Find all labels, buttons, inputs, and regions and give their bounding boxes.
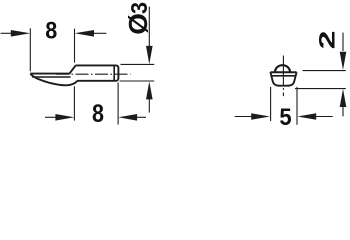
pin centerline [56, 73, 131, 75]
dim 2: bottom tail [342, 106, 344, 117]
right view vertical centerline [282, 56, 284, 97]
dim 2: top arrowhead (down) [340, 52, 347, 70]
dim 2: bottom arrowhead (up) [340, 89, 347, 107]
dim 5: right tail [315, 116, 333, 118]
dim 8 top: right extension line [74, 29, 76, 63]
dim 5: right arrowhead [297, 113, 316, 120]
dim dia3: top extension line [121, 63, 155, 65]
dim 8 bottom: right arrowhead [118, 114, 137, 121]
dim 2: top tail [342, 33, 344, 51]
dim 8 top: left arrowhead [11, 30, 30, 37]
dim 2: bottom extension line [295, 88, 346, 90]
dim 8 bottom: left extension line [73, 86, 75, 120]
pin bottom edge [77, 80, 114, 82]
svg-text:Ø: Ø [124, 13, 153, 35]
svg-text:3: 3 [126, 2, 152, 14]
dim dia3: bottom arrowhead (up) [146, 81, 153, 99]
svg-text:8: 8 [92, 100, 104, 127]
svg-text:2: 2 [315, 31, 340, 50]
dim 5: right extension line [296, 87, 298, 125]
dim dia3: top tail [148, 7, 150, 47]
pin end cap [114, 65, 118, 80]
right view bowl outline [270, 72, 296, 86]
dim dia3: bottom extension line [120, 80, 155, 82]
blade inner edge line [32, 76, 70, 78]
svg-text:8: 8 [45, 16, 57, 43]
right view dome [275, 65, 290, 72]
dim 8 bottom: left tail [45, 116, 56, 118]
dim dia3: top arrowhead (down) [146, 46, 153, 64]
pin top edge [76, 64, 115, 66]
right view band top line [270, 71, 296, 73]
dim 5: left tail [235, 116, 252, 118]
dim 5: left arrowhead [251, 113, 270, 120]
dim 8 top: right tail [92, 32, 106, 34]
dim 2: top extension line [303, 70, 346, 72]
dim 8 top: left tail [1, 32, 14, 34]
pin end joint line [113, 65, 115, 82]
blade top edge and slant to pin [30, 65, 75, 73]
svg-text:5: 5 [279, 103, 291, 127]
dim 8 top: right arrowhead [75, 30, 94, 37]
dim 8 bottom: right extension line [117, 83, 119, 125]
dim 8 bottom: left arrowhead [55, 114, 74, 121]
dim 8 bottom: right tail [136, 116, 147, 118]
dim dia3: bottom tail [148, 98, 150, 113]
dim 8 top: left extension line [29, 28, 31, 71]
right view band second line [271, 75, 296, 77]
blade bottom curve [30, 74, 77, 86]
dim 5: left extension line [270, 87, 272, 121]
